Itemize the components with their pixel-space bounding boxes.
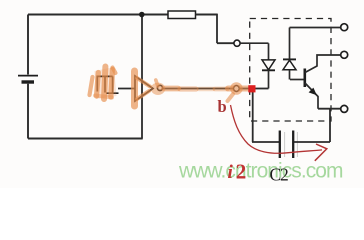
- wire terminal to node b: [239, 88, 249, 90]
- orange highlight inverter strokes: [135, 71, 151, 106]
- svg-text:2: 2: [236, 159, 247, 183]
- wire D2 cathode up: [289, 28, 291, 60]
- terminal circle collector: [341, 51, 348, 58]
- wire capacitor left lead: [252, 141, 279, 143]
- orange highlight terminal ring: [232, 84, 241, 93]
- wire top horizontal: [28, 14, 217, 16]
- pulse source waveform: [97, 76, 118, 93]
- current arrow i2 curve: [231, 105, 323, 153]
- svg-text:i: i: [228, 162, 234, 183]
- terminal circle emitter: [341, 105, 348, 112]
- orange highlight pulse strokes: [90, 67, 116, 100]
- terminal circle top input: [234, 40, 240, 46]
- svg-text:C2: C2: [270, 165, 288, 185]
- node b red square: [248, 85, 255, 92]
- transistor Q1 base bar: [303, 69, 306, 88]
- wire D2 anode down to base: [289, 70, 291, 80]
- wire bottom horizontal of left loop: [28, 138, 143, 140]
- diode D2 triangle: [283, 60, 296, 69]
- wire top rail to terminal: [290, 27, 341, 29]
- wire capacitor right lead: [294, 141, 330, 143]
- wire left side lower (battery bottom lead): [27, 84, 29, 139]
- capacitor C2 right plate ghost: [296, 132, 298, 157]
- orange highlight output wire strokes: [156, 80, 248, 101]
- wire emitter rail to terminal: [318, 108, 340, 110]
- terminal circle top right: [341, 24, 348, 31]
- wire to input terminal: [217, 42, 234, 44]
- wire D1 cathode down: [268, 70, 270, 88]
- node junction dot: [139, 12, 145, 18]
- terminal circle output: [233, 86, 239, 92]
- diode D1 triangle: [262, 60, 275, 70]
- capacitor C2 left plate: [279, 131, 281, 159]
- wire node b down to capacitor loop: [252, 91, 254, 142]
- wire right vertical up to emitter rail: [329, 109, 331, 142]
- transistor Q1 emitter: [305, 83, 318, 109]
- wire corner down: [216, 14, 218, 44]
- transistor Q1 base wire: [290, 79, 304, 81]
- wire resistor to corner: [196, 14, 218, 16]
- wire right vertical of left loop: [141, 15, 143, 139]
- inverter U1 bubble: [157, 85, 162, 90]
- capacitor C2 right plate: [292, 131, 294, 159]
- svg-text:www.cntronics.com: www.cntronics.com: [178, 159, 343, 182]
- orange highlight bubble blob: [151, 83, 165, 95]
- diode D2 cathode bar: [283, 58, 296, 60]
- capacitor C2 left plate ghost: [284, 132, 286, 157]
- wire terminal to diode D1 anode: [240, 43, 268, 60]
- transistor Q1 emitter arrowhead: [309, 88, 317, 96]
- wire node b to diode D1 cathode: [255, 88, 269, 90]
- battery B1 negative plate: [22, 80, 35, 83]
- wire left side upper (battery top lead): [27, 15, 29, 75]
- transistor Q1 collector: [305, 55, 340, 73]
- dashed optocoupler box: [250, 19, 331, 122]
- svg-text:b: b: [218, 97, 227, 116]
- wire inverter output: [163, 88, 234, 90]
- battery B1 positive plate: [18, 75, 38, 77]
- diode D1 cathode bar: [262, 69, 275, 71]
- orange highlight pulse backdrop: [95, 67, 117, 99]
- wire pulse to inverter input: [118, 88, 135, 90]
- resistor R1: [168, 11, 196, 19]
- inverter U1 triangle: [135, 76, 153, 101]
- current arrow i2 head: [315, 144, 327, 161]
